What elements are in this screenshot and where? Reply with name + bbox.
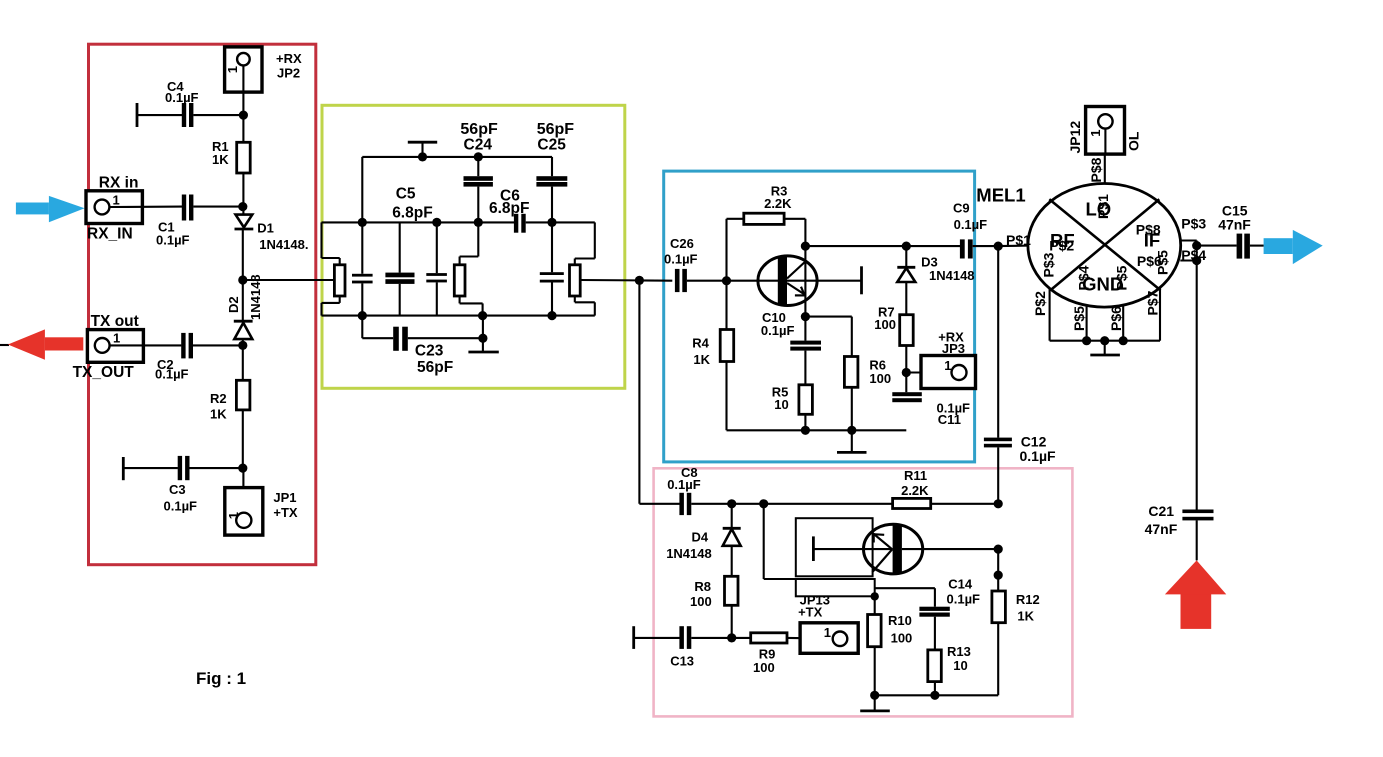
svg-text:100: 100	[891, 631, 913, 646]
resistor R12	[997, 549, 999, 591]
blue output arrow IF out	[1264, 230, 1323, 264]
svg-text:P$4: P$4	[1076, 265, 1092, 290]
svg-text:D2: D2	[226, 296, 241, 313]
ground (buffer)	[874, 695, 876, 711]
diode D3	[905, 246, 907, 267]
svg-text:R11: R11	[904, 468, 927, 483]
svg-text:R12: R12	[1016, 592, 1040, 607]
svg-text:C13: C13	[670, 654, 694, 669]
svg-text:1N4148.: 1N4148.	[259, 237, 308, 252]
svg-text:P$2: P$2	[1032, 291, 1048, 316]
svg-text:0.1µF: 0.1µF	[947, 592, 981, 607]
svg-text:10: 10	[774, 397, 788, 412]
svg-text:C23: C23	[415, 343, 444, 360]
capacitor C8	[639, 503, 679, 505]
capacitor C26	[675, 269, 680, 292]
shunt capacitor (mid column)	[436, 222, 438, 273]
svg-text:10: 10	[953, 658, 967, 673]
red up arrow LO in	[1165, 560, 1226, 629]
svg-text:C11: C11	[938, 412, 961, 427]
net frame rectangle upper	[796, 518, 873, 576]
svg-text:P$8: P$8	[1136, 222, 1161, 238]
svg-text:0.1µF: 0.1µF	[954, 217, 988, 232]
svg-text:C9: C9	[953, 201, 970, 216]
capacitor C13 row	[632, 626, 635, 649]
wire emitter to C14	[875, 587, 935, 589]
pink section frame (oscillator buffer)	[654, 468, 1073, 716]
wire IF node vertical	[1196, 241, 1198, 510]
svg-text:MEL1: MEL1	[976, 185, 1025, 206]
svg-text:P$8: P$8	[1088, 157, 1104, 182]
svg-text:P$1: P$1	[1006, 232, 1031, 248]
node emitter junction	[871, 592, 879, 600]
ground (mixer)	[1104, 341, 1106, 355]
wire JP2 pin to node	[242, 66, 244, 116]
svg-text:1N4148: 1N4148	[929, 268, 975, 283]
yellow-green section frame (crystal filter)	[322, 105, 625, 388]
svg-text:100: 100	[869, 371, 891, 386]
connector JP2	[225, 47, 262, 92]
svg-text:P$7: P$7	[1144, 290, 1160, 315]
ground (filter bottom)	[482, 316, 484, 352]
svg-text:TX out: TX out	[91, 313, 139, 330]
node base	[722, 276, 731, 285]
svg-text:+TX: +TX	[273, 505, 298, 520]
svg-text:JP2: JP2	[277, 66, 300, 81]
svg-text:0.1µF: 0.1µF	[164, 499, 198, 514]
resistor R3 feedback	[725, 219, 727, 281]
svg-text:1N4148: 1N4148	[666, 546, 712, 561]
wire down to oscillator section	[638, 280, 640, 503]
svg-text:6.8pF: 6.8pF	[489, 200, 529, 217]
svg-text:D1: D1	[257, 221, 274, 236]
resistor R1	[242, 115, 244, 142]
node base feed	[759, 499, 768, 508]
svg-text:R4: R4	[692, 336, 709, 351]
svg-text:0.1µF: 0.1µF	[664, 252, 698, 267]
connector JP1	[242, 468, 244, 512]
emitter arrow	[795, 294, 805, 296]
node A rail	[322, 221, 515, 223]
node junction D2/C2/R2	[238, 341, 247, 350]
shunt capacitor (left column)	[352, 274, 373, 277]
capacitor C9	[960, 239, 965, 258]
buffer bottom rail	[875, 694, 999, 696]
svg-text:P$1: P$1	[1095, 194, 1111, 219]
wire to crystal filter	[243, 279, 335, 281]
svg-text:+TX: +TX	[798, 605, 823, 620]
filter bottom rail	[322, 315, 595, 317]
capacitor C11	[892, 392, 922, 396]
wire left column riser	[361, 157, 363, 274]
node top rail / shunt column	[474, 152, 483, 161]
svg-text:C3: C3	[169, 482, 186, 497]
svg-text:47nF: 47nF	[1218, 217, 1251, 233]
resistor R8	[725, 576, 739, 605]
svg-text:1: 1	[113, 193, 120, 208]
capacitor C5 column	[399, 222, 401, 272]
capacitor C2	[181, 333, 185, 359]
svg-text:47nF: 47nF	[1145, 521, 1178, 537]
svg-text:P$5: P$5	[1155, 250, 1171, 275]
diode D1	[236, 215, 253, 228]
connector JP13	[800, 623, 858, 654]
svg-text:+RX: +RX	[276, 51, 302, 66]
svg-text:1: 1	[1088, 130, 1103, 137]
base wire right Q2	[902, 548, 998, 550]
resistor R5	[799, 385, 813, 415]
svg-text:0.1µF: 0.1µF	[761, 323, 795, 338]
svg-text:C5: C5	[396, 186, 416, 203]
top ground rail	[362, 156, 552, 158]
svg-text:2.2K: 2.2K	[764, 196, 792, 211]
svg-text:1: 1	[225, 66, 240, 73]
connector RX_IN	[86, 191, 142, 224]
pin stub P$3	[1180, 239, 1197, 241]
svg-text:0.1µF: 0.1µF	[1020, 448, 1057, 464]
base terminal stub Q2	[812, 536, 815, 561]
svg-text:RX_IN: RX_IN	[87, 226, 133, 243]
svg-text:1N4148: 1N4148	[248, 274, 263, 320]
svg-text:0.1µF: 0.1µF	[667, 477, 701, 492]
LO input pin wire	[1104, 154, 1106, 183]
resistor R11	[893, 498, 931, 508]
svg-text:D4: D4	[692, 530, 709, 545]
svg-text:1K: 1K	[1017, 609, 1034, 624]
svg-text:TX_OUT: TX_OUT	[73, 364, 135, 381]
svg-text:P$6: P$6	[1108, 306, 1124, 331]
connector TX_OUT	[87, 330, 143, 363]
connector JP3	[921, 356, 976, 389]
capacitor C6 (series)	[514, 214, 518, 233]
pin stub P$4	[1180, 259, 1196, 261]
svg-text:100: 100	[753, 660, 775, 675]
node collector	[801, 242, 810, 251]
node to filter	[238, 275, 247, 284]
svg-text:R13: R13	[947, 644, 971, 659]
svg-text:R8: R8	[694, 579, 711, 594]
svg-text:1: 1	[944, 358, 951, 373]
node D4 top	[727, 499, 736, 508]
resistor R7	[900, 315, 914, 346]
svg-text:R2: R2	[210, 391, 227, 406]
shunt capacitor (C25 lower)	[540, 272, 564, 275]
svg-text:56pF: 56pF	[460, 121, 498, 138]
node C9 / C12 / mixer	[994, 242, 1003, 251]
svg-text:Fig : 1: Fig : 1	[196, 669, 246, 688]
svg-text:1K: 1K	[212, 152, 229, 167]
capacitor C1	[182, 195, 186, 221]
node junction C1/R1/D1	[238, 202, 247, 211]
svg-text:1: 1	[113, 331, 120, 346]
resistor R2	[242, 345, 244, 380]
collector wire	[805, 245, 960, 247]
resistor R6	[844, 357, 858, 388]
svg-text:1K: 1K	[693, 352, 710, 367]
wire RF in to mixer	[998, 245, 1029, 248]
svg-text:P$2: P$2	[1049, 238, 1074, 254]
svg-text:RX in: RX in	[99, 175, 139, 192]
svg-text:0.1µF: 0.1µF	[165, 90, 199, 105]
capacitor C21	[1182, 510, 1213, 514]
svg-text:C24: C24	[464, 137, 493, 154]
svg-text:R10: R10	[888, 613, 912, 628]
capacitor C4	[136, 103, 139, 127]
svg-text:C21: C21	[1148, 503, 1174, 519]
capacitor C25	[551, 157, 553, 176]
svg-text:P$5: P$5	[1071, 306, 1087, 331]
IF output wire	[1197, 245, 1237, 247]
svg-text:JP3: JP3	[942, 341, 965, 356]
blue input arrow RX in	[16, 196, 85, 222]
svg-text:56pF: 56pF	[537, 121, 575, 138]
svg-text:100: 100	[690, 594, 712, 609]
emitter branch to R6	[805, 316, 851, 318]
emitter arrow Q2	[873, 533, 884, 536]
resistor R13	[928, 650, 942, 682]
capacitor C3	[122, 457, 125, 480]
transistor Q2 (mirrored)	[864, 524, 923, 574]
svg-text:P$5: P$5	[1114, 265, 1130, 290]
svg-text:1: 1	[824, 625, 831, 640]
diode D2	[242, 280, 244, 322]
svg-text:0.1µF: 0.1µF	[156, 233, 190, 248]
blue section frame (IF amplifier)	[664, 171, 975, 462]
red output arrow TX out	[0, 344, 9, 346]
svg-text:56pF: 56pF	[417, 359, 453, 376]
amp bottom rail	[727, 429, 907, 431]
wire row to R11	[732, 503, 893, 505]
svg-text:100: 100	[874, 317, 896, 332]
svg-text:C14: C14	[948, 577, 973, 592]
ground (amp)	[851, 430, 853, 452]
svg-text:1K: 1K	[210, 407, 227, 422]
mixer bottom pins	[1049, 288, 1051, 340]
svg-text:0.1µF: 0.1µF	[155, 367, 189, 382]
svg-text:6.8pF: 6.8pF	[392, 205, 432, 222]
svg-text:P$3: P$3	[1041, 252, 1057, 277]
capacitor C14	[919, 607, 949, 611]
svg-text:1: 1	[226, 512, 241, 519]
svg-text:C26: C26	[670, 236, 694, 251]
node junction C4/R1/JP2	[239, 111, 248, 120]
capacitor C15	[1237, 234, 1243, 259]
diode D4	[731, 504, 733, 528]
svg-text:2.2K: 2.2K	[901, 483, 929, 498]
svg-text:OL: OL	[1126, 131, 1142, 151]
node R7/JP3/C11	[902, 368, 911, 377]
resistor R10	[874, 596, 876, 614]
transistor Q1	[758, 256, 817, 306]
svg-text:P$3: P$3	[1181, 216, 1206, 232]
red section frame (RX/TX switch)	[89, 44, 316, 565]
base feed wire	[763, 504, 765, 579]
node junction C3/R2/JP1	[238, 464, 247, 473]
crystal Q1	[320, 222, 322, 258]
mixer U1 body	[1028, 184, 1181, 308]
output wire to amplifier	[580, 279, 639, 281]
svg-text:C25: C25	[537, 137, 566, 154]
crystal Q2	[477, 222, 479, 256]
resistor R4	[725, 281, 727, 330]
connector JP12	[1086, 107, 1125, 155]
crystal Q3	[594, 222, 596, 258]
net frame rectangle lower	[796, 579, 875, 596]
svg-text:JP1: JP1	[273, 490, 296, 505]
base wire and terminal stub	[727, 280, 862, 282]
capacitor C24	[477, 157, 479, 176]
capacitor C23	[361, 316, 363, 339]
svg-text:JP12: JP12	[1067, 121, 1083, 154]
ground (filter top)	[408, 141, 437, 144]
capacitor C12	[997, 246, 999, 438]
resistor R9	[751, 633, 787, 643]
